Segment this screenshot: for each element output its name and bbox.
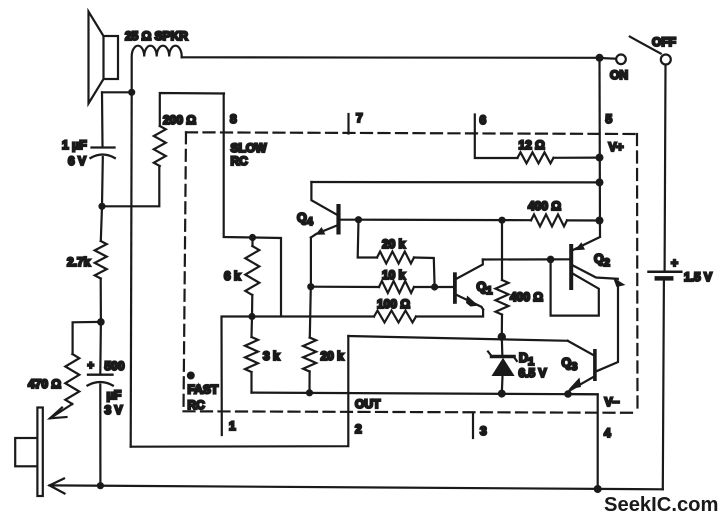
transistor Q2 bbox=[551, 237, 626, 371]
wire speaker return vertical bbox=[131, 92, 132, 446]
wire 400Ω vertical top bbox=[501, 220, 503, 280]
transducer plate bbox=[37, 408, 42, 497]
junction dot Q4 base rail bbox=[355, 216, 362, 223]
transistor Q4 bbox=[311, 182, 359, 238]
svg-text:200 Ω: 200 Ω bbox=[163, 113, 196, 127]
svg-text:2: 2 bbox=[355, 422, 362, 436]
wire Q4 emitter down bbox=[310, 238, 312, 287]
resistor 20k vertical bbox=[303, 338, 316, 372]
resistor 12Ω bbox=[518, 152, 554, 163]
junction dot Q3 emitter bbox=[564, 390, 572, 398]
svg-text:6 k: 6 k bbox=[224, 269, 241, 283]
wire 6k bottom to 100Ω bbox=[252, 315, 374, 317]
junction dot 6k bottom bbox=[248, 313, 255, 320]
junction dot Q2 base bbox=[547, 256, 555, 264]
arrowhead 470Ω bbox=[50, 408, 67, 419]
arrowhead bottom rail bbox=[50, 479, 65, 494]
wire node to pin 1 bbox=[222, 317, 253, 436]
junction dot 10k right bbox=[431, 283, 438, 290]
transducer box bbox=[15, 438, 37, 466]
svg-text:+: + bbox=[88, 360, 94, 372]
resistor 400Ω vertical bbox=[496, 280, 509, 315]
inductor 25Ω SPKR coil bbox=[132, 46, 182, 92]
svg-text:400 Ω: 400 Ω bbox=[510, 290, 543, 304]
svg-text:5: 5 bbox=[606, 112, 613, 126]
junction dot 500uF bottom bbox=[97, 482, 104, 489]
svg-text:Q2: Q2 bbox=[594, 252, 610, 269]
svg-text:+: + bbox=[671, 256, 678, 270]
junction dot D1 top bbox=[498, 333, 506, 341]
junction dot rail/V+ bbox=[596, 178, 604, 186]
junction dot speaker node bbox=[128, 89, 135, 96]
junction dot 12Ω right bbox=[596, 154, 604, 162]
svg-text:RC: RC bbox=[188, 398, 206, 412]
pin 7 tick bbox=[347, 114, 349, 134]
wire to ON contact bbox=[600, 57, 616, 60]
svg-text:400 Ω: 400 Ω bbox=[528, 199, 561, 213]
capacitor C2 500uF bbox=[88, 375, 113, 386]
wire C2 to bottom rail bbox=[99, 385, 101, 486]
svg-text:1.5 V: 1.5 V bbox=[684, 270, 712, 284]
svg-text:500: 500 bbox=[105, 359, 125, 373]
wire Q1 collector rail bbox=[483, 258, 551, 260]
svg-text:3 V: 3 V bbox=[105, 403, 123, 417]
wire to 20k top bbox=[310, 287, 311, 338]
resistor 6k bbox=[251, 238, 253, 247]
wire node to 470Ω bbox=[73, 322, 101, 354]
wire bottom rail bbox=[50, 485, 663, 489]
wire 200Ω top to pin 8 bbox=[160, 93, 224, 126]
svg-text:8: 8 bbox=[230, 112, 237, 126]
junction dot 20k bottom bbox=[306, 389, 313, 396]
svg-text:7: 7 bbox=[356, 111, 363, 125]
svg-text:1: 1 bbox=[229, 419, 236, 433]
pin 8 wire bbox=[224, 94, 253, 238]
pin 2 wire bbox=[131, 336, 349, 447]
svg-text:6: 6 bbox=[480, 113, 487, 127]
svg-text:SLOW: SLOW bbox=[231, 141, 268, 155]
svg-text:V−: V− bbox=[605, 395, 620, 409]
junction dot V- bottom bbox=[594, 485, 602, 493]
svg-text:ON: ON bbox=[610, 68, 628, 82]
transistor Q3 bbox=[568, 341, 597, 394]
svg-text:2.7k: 2.7k bbox=[67, 255, 91, 269]
wire 470Ω arrow bbox=[50, 404, 72, 418]
wire Q4 collector rail bbox=[311, 181, 599, 184]
wire speaker node bbox=[102, 91, 132, 93]
wire battery to bottom rail bbox=[663, 281, 664, 490]
svg-text:10 k: 10 k bbox=[382, 268, 406, 282]
wire OUT rail bbox=[252, 393, 598, 395]
switch ON contact bbox=[616, 55, 626, 65]
svg-text:20 k: 20 k bbox=[321, 349, 345, 363]
svg-text:Q3: Q3 bbox=[562, 356, 578, 373]
resistor 200Ω bbox=[154, 126, 166, 166]
resistor 100Ω bbox=[374, 311, 416, 323]
svg-text:4: 4 bbox=[604, 426, 611, 440]
junction dot 400Ω right bbox=[596, 217, 604, 225]
wire 6k top branch right bbox=[253, 238, 282, 316]
junction dot C1/200Ω bbox=[98, 203, 105, 210]
resistor 20k horizontal bbox=[358, 220, 377, 258]
wire 10k rail bbox=[311, 286, 379, 288]
junction dot 10k left bbox=[307, 283, 314, 290]
junction dot 400Ω left bbox=[498, 217, 505, 224]
svg-text:3 k: 3 k bbox=[263, 349, 280, 363]
junction dot at switch bbox=[596, 54, 604, 62]
svg-text:100 Ω: 100 Ω bbox=[377, 297, 410, 311]
svg-text:12 Ω: 12 Ω bbox=[519, 138, 546, 152]
wire 100Ω to Q1 emitter bbox=[416, 310, 483, 317]
resistor 2.7k bbox=[95, 241, 107, 279]
junction dot 6k top bbox=[249, 234, 256, 241]
svg-text:20 k: 20 k bbox=[382, 237, 406, 251]
battery 1.5V plates bbox=[649, 272, 682, 279]
svg-text:RC: RC bbox=[231, 154, 249, 168]
svg-text:OFF: OFF bbox=[652, 35, 676, 49]
svg-text:470 Ω: 470 Ω bbox=[28, 377, 61, 391]
wire C1 node to 2.7k bbox=[101, 206, 102, 241]
wire V+ vertical bbox=[598, 58, 601, 236]
wire top rail bbox=[182, 56, 600, 59]
svg-text:6.5 V: 6.5 V bbox=[519, 366, 547, 380]
IC boundary dashed box bbox=[184, 132, 638, 413]
svg-text:Q1: Q1 bbox=[477, 280, 493, 297]
capacitor C1 1uF bbox=[91, 148, 115, 159]
svg-text:6 V: 6 V bbox=[68, 154, 86, 168]
svg-text:25 Ω SPKR: 25 Ω SPKR bbox=[125, 29, 188, 43]
svg-text:OUT: OUT bbox=[355, 397, 381, 411]
transistor Q1 bbox=[453, 260, 483, 310]
resistor 470Ω bbox=[65, 354, 79, 404]
wire to C1 bbox=[101, 92, 104, 146]
svg-text:1 μF: 1 μF bbox=[62, 138, 87, 152]
svg-text:μF: μF bbox=[107, 388, 122, 402]
junction dot D1 bottom bbox=[498, 390, 506, 398]
wire V- down to rail bbox=[568, 394, 598, 489]
svg-text:3: 3 bbox=[480, 424, 487, 438]
wire Q4 base rail bbox=[359, 219, 532, 222]
switch blade bbox=[630, 37, 661, 54]
resistor 400Ω horizontal bbox=[531, 214, 567, 226]
svg-text:SeekIC.com: SeekIC.com bbox=[604, 494, 718, 516]
pin 3 tick bbox=[472, 414, 474, 438]
speaker SPKR bbox=[89, 12, 119, 104]
svg-text:Q4: Q4 bbox=[297, 211, 314, 228]
node dot FAST RC bbox=[187, 372, 195, 380]
switch OFF contact bbox=[661, 55, 671, 65]
zener diode D1 6.5V bbox=[488, 337, 517, 394]
svg-text:FAST: FAST bbox=[188, 383, 219, 397]
resistor 3k bbox=[250, 317, 253, 338]
wire C1 to node bbox=[101, 157, 104, 206]
wire node to R 200Ω bbox=[102, 166, 159, 206]
wire zener top rail bbox=[348, 336, 567, 341]
wire node to C2 bbox=[99, 322, 102, 374]
wire switch to battery bbox=[663, 65, 666, 271]
svg-text:V+: V+ bbox=[609, 140, 624, 154]
junction dot 2.7k bottom bbox=[97, 318, 105, 326]
pin 6 wire bbox=[475, 115, 518, 159]
